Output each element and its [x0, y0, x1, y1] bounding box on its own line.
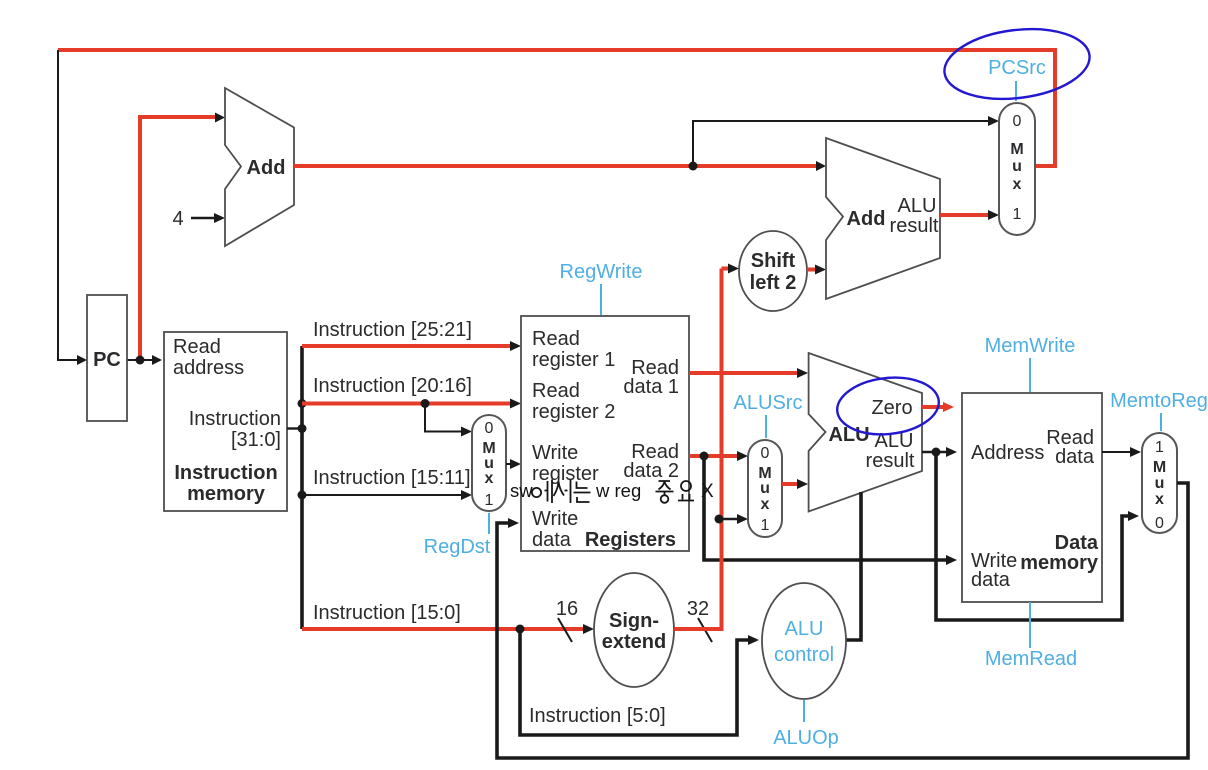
sign-extend unit	[594, 573, 674, 687]
svg-text:register: register	[532, 463, 599, 485]
svg-text:sw: sw	[510, 480, 533, 501]
wire: Instruction [20:16] to Read register 2 (red)	[302, 399, 521, 409]
svg-text:0: 0	[485, 420, 494, 437]
wire: MemtoReg mux output loop back to Write data of Registers	[497, 483, 1188, 758]
svg-text:Instruction [25:21]: Instruction [25:21]	[313, 319, 472, 341]
hangul 요	[681, 481, 691, 491]
hangul 서	[554, 480, 571, 504]
shift left 2 unit	[739, 231, 807, 311]
wire: Instruction [20:16] branch down to RegDst mux input 0	[421, 399, 473, 437]
wire: Add result output to PCSrc mux input 1 (red)	[940, 210, 999, 220]
svg-text:x: x	[1013, 176, 1022, 193]
svg-text:M: M	[1153, 459, 1166, 476]
svg-text:MemRead: MemRead	[985, 648, 1077, 670]
mux PCSrc	[999, 103, 1035, 235]
svg-text:4: 4	[172, 208, 183, 230]
svg-text:u: u	[1012, 158, 1022, 175]
svg-text:RegWrite: RegWrite	[560, 261, 643, 283]
wire: PC output riser to Add (red)	[140, 113, 225, 361]
register file Registers	[521, 316, 689, 551]
wire: RegDst mux output to Write register	[506, 459, 521, 469]
annotation ellipse around Zero (blue)	[834, 373, 941, 439]
wire: instruction bus vertical	[298, 346, 307, 629]
svg-text:RegDst: RegDst	[424, 536, 491, 558]
wire: ALU result branch to MemtoReg mux input 0	[936, 452, 1139, 620]
svg-text:address: address	[173, 357, 244, 379]
wire: PC+4 branch up to PCSrc mux input 0 (black)	[693, 116, 999, 166]
register PC	[87, 295, 127, 421]
svg-text:1: 1	[761, 517, 770, 534]
mux MemtoReg	[1142, 433, 1177, 533]
control label ALUSrc	[734, 392, 803, 438]
svg-text:data: data	[971, 569, 1011, 591]
svg-text:Add: Add	[847, 208, 886, 230]
wire: ALUSrc mux output to ALU (red)	[782, 479, 808, 489]
svg-text:Registers: Registers	[585, 529, 676, 551]
svg-text:Shift: Shift	[751, 250, 796, 272]
control label RegWrite	[560, 261, 643, 315]
svg-text:left 2: left 2	[750, 272, 797, 294]
svg-text:Add: Add	[247, 157, 286, 179]
svg-text:Read: Read	[532, 380, 580, 402]
ALU main	[809, 353, 922, 512]
svg-text:Sign-: Sign-	[609, 610, 659, 632]
data memory	[962, 393, 1102, 602]
wire: Instruction [25:21] to Read register 1 (red)	[302, 341, 521, 351]
control label MemWrite	[985, 335, 1076, 392]
control label RegDst	[424, 513, 491, 558]
svg-text:result: result	[866, 450, 915, 472]
wire: PC output to instruction memory read address	[127, 355, 162, 365]
svg-text:register 2: register 2	[532, 401, 615, 423]
svg-text:Read: Read	[173, 336, 221, 358]
svg-text:MemWrite: MemWrite	[985, 335, 1076, 357]
svg-text:data 2: data 2	[623, 460, 679, 482]
wire: sign-extend branch to ALUSrc mux input 1	[715, 514, 749, 524]
annotation text: sw에서는 w reg 중요 X	[510, 480, 714, 504]
svg-text:u: u	[1155, 475, 1165, 492]
mux ALUSrc	[748, 440, 782, 537]
wire: Read data 2 branch down to data memory Write data	[704, 456, 957, 565]
wire: Instruction [15:0] to sign-extend (red)	[302, 624, 594, 634]
svg-text:Write: Write	[532, 442, 578, 464]
svg-text:Address: Address	[971, 442, 1044, 464]
svg-text:data: data	[532, 529, 572, 551]
control label MemRead	[985, 602, 1077, 670]
svg-text:Read: Read	[532, 328, 580, 350]
hangul 중	[656, 481, 674, 495]
svg-text:16: 16	[556, 598, 578, 620]
svg-text:X: X	[701, 481, 714, 502]
wire: ALU control output to ALU	[845, 492, 861, 640]
svg-text:Write: Write	[532, 508, 578, 530]
svg-text:w reg: w reg	[595, 480, 641, 501]
svg-text:Instruction: Instruction	[189, 408, 281, 430]
svg-text:x: x	[1155, 491, 1164, 508]
svg-text:memory: memory	[1020, 552, 1099, 574]
wire: top-left vertical into PC (black)	[58, 50, 87, 365]
control label PCSrc	[988, 57, 1046, 101]
wire: Read data 1 to ALU (red)	[689, 368, 808, 378]
control label MemtoReg	[1110, 390, 1208, 431]
bus width 32 marker	[687, 598, 712, 642]
wire: Zero output stub (red)	[922, 402, 954, 412]
svg-text:x: x	[761, 496, 770, 513]
svg-text:data: data	[1055, 446, 1095, 468]
wire: sign-extend output riser to shift left 2 (red)	[674, 264, 739, 632]
svg-text:1: 1	[1013, 206, 1022, 223]
svg-text:Data: Data	[1055, 532, 1099, 554]
hangul 는	[574, 482, 591, 503]
svg-text:M: M	[1010, 141, 1023, 158]
svg-text:extend: extend	[602, 631, 666, 653]
svg-text:0: 0	[1013, 113, 1022, 130]
svg-text:1: 1	[485, 492, 494, 509]
adder Add result (branch target)	[826, 138, 940, 299]
wire: Instruction [15:11] to RegDst mux input 1	[302, 490, 472, 500]
control label ALUOp	[773, 700, 839, 749]
svg-text:1: 1	[1155, 439, 1164, 456]
svg-text:memory: memory	[187, 483, 266, 505]
svg-text:x: x	[485, 470, 494, 487]
svg-text:Instruction [15:11]: Instruction [15:11]	[313, 467, 471, 489]
wire: memory Read data to MemtoReg mux input 1	[1102, 447, 1141, 457]
hangul 에	[532, 488, 541, 497]
wire: PC feedback top loop (Mux output to PC, red)	[58, 50, 1055, 166]
wire: shift left 2 output to Add result (red)	[807, 265, 826, 275]
wire: ALU result to data memory Address	[922, 447, 957, 457]
svg-text:0: 0	[1155, 515, 1164, 532]
svg-text:Instruction: Instruction	[174, 462, 277, 484]
svg-text:Instruction [20:16]: Instruction [20:16]	[313, 375, 472, 397]
wire: Read data 2 to ALUSrc mux input 0 (red)	[689, 451, 748, 461]
svg-text:ALUSrc: ALUSrc	[734, 392, 803, 414]
svg-text:result: result	[890, 215, 939, 237]
wire: Add output PC+4 (red) to Add result	[294, 161, 826, 171]
annotation ellipse around PCSrc (blue)	[940, 21, 1093, 106]
svg-text:control: control	[774, 644, 834, 666]
svg-text:Zero: Zero	[871, 397, 912, 419]
svg-text:MemtoReg: MemtoReg	[1110, 390, 1208, 412]
svg-text:PCSrc: PCSrc	[988, 57, 1046, 79]
instruction memory	[164, 332, 287, 511]
svg-text:register 1: register 1	[532, 349, 615, 371]
svg-text:0: 0	[761, 445, 770, 462]
svg-text:Instruction [5:0]: Instruction [5:0]	[529, 705, 666, 727]
svg-text:ALU: ALU	[898, 195, 937, 217]
svg-text:PC: PC	[93, 349, 121, 371]
svg-text:32: 32	[687, 598, 709, 620]
mux RegDst	[472, 415, 506, 511]
wire: Instruction [5:0] loop to ALU control	[520, 629, 759, 735]
ALU control unit	[762, 583, 846, 699]
wire: instruction memory output to bus	[287, 424, 307, 433]
svg-text:Instruction [15:0]: Instruction [15:0]	[313, 602, 461, 624]
bus width 16 marker	[556, 598, 578, 642]
svg-text:ALU: ALU	[785, 618, 824, 640]
constant 4 input to Add	[172, 208, 225, 230]
adder Add (PC+4)	[225, 88, 294, 246]
svg-text:ALUOp: ALUOp	[773, 727, 839, 749]
svg-text:[31:0]: [31:0]	[231, 429, 281, 451]
svg-text:u: u	[760, 480, 770, 497]
svg-text:data 1: data 1	[623, 376, 679, 398]
